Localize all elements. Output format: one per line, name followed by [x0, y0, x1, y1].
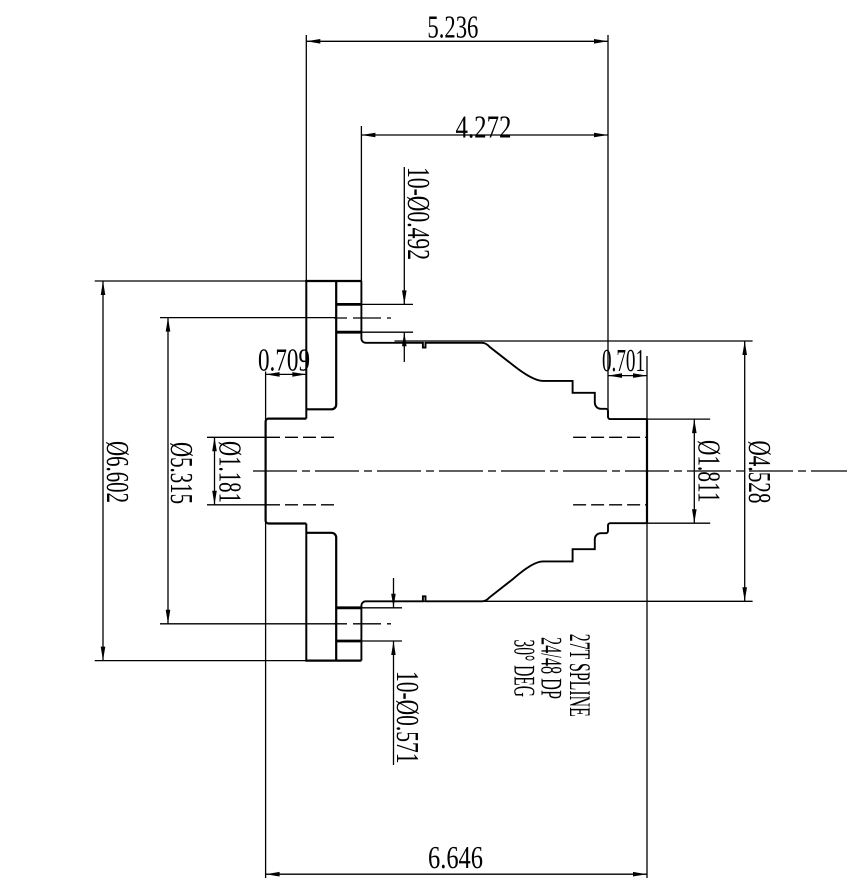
arrows dia 1.811 [692, 419, 697, 433]
arrows 0.701 [608, 373, 622, 378]
dimension line 0.701 [608, 375, 647, 377]
centerline (part axis) [253, 470, 847, 472]
arrows dia 6.602 [101, 281, 106, 295]
svg-text:10-Ø0.571: 10-Ø0.571 [390, 671, 426, 764]
dia 1.811 lower extension line [610, 522, 711, 524]
dimension line dia 6.602 [102, 281, 104, 661]
4.272 left extension vertical x361.4 [360, 126, 362, 281]
dimension line 5.236 [306, 40, 608, 42]
dia 5.315 upper extension line [160, 317, 336, 319]
dia 4.528 upper extension line [395, 340, 753, 342]
hidden bore line lower right [573, 504, 647, 506]
dimension line dia 1.811 [693, 419, 695, 523]
upper body profile: hub face, web surface, notch, ogee and steps [361, 281, 647, 419]
svg-text:6.646: 6.646 [428, 839, 483, 875]
dimension line 6.646 [266, 873, 647, 875]
left end face extension vertical [265, 372, 267, 879]
leader 10-dia0.571 [393, 578, 395, 608]
dimension line dia 5.315 [167, 318, 169, 624]
lower body profile: hub face, web surface, notch, ogee and steps [361, 523, 647, 660]
svg-text:Ø1.181: Ø1.181 [213, 441, 249, 503]
flange bottom edge with dia 6.602 extension [95, 660, 307, 662]
arrows dia 1.181 [212, 437, 217, 451]
arrows dia 5.315 [166, 318, 171, 332]
dia 1.811 upper extension line [610, 418, 711, 420]
dia 4.528 lower extension line [364, 600, 753, 602]
svg-text:Ø5.315: Ø5.315 [164, 442, 200, 504]
right end face extension vertical x647 [646, 356, 648, 878]
dimension line 4.272 [361, 134, 608, 136]
svg-text:Ø4.528: Ø4.528 [742, 441, 778, 504]
hidden bore line upper left [267, 436, 336, 438]
flange left face upper [305, 35, 307, 281]
hidden bore line upper right [573, 436, 647, 438]
svg-text:0.701: 0.701 [602, 342, 645, 378]
bottom bolt hole lower edge [336, 640, 361, 643]
dia 1.181 upper extension line [207, 436, 267, 438]
arrows 4.272 [361, 133, 375, 138]
arrows 6.646 [266, 872, 280, 877]
flange left face lower [305, 524, 307, 661]
hidden bore line lower left [267, 504, 336, 506]
svg-text:30° DEG: 30° DEG [508, 640, 541, 698]
dimension line 0.709 [266, 373, 307, 375]
arrows dia 4.528 [742, 341, 747, 355]
bottom bolt hole upper edge [336, 606, 361, 609]
top bolt hole upper edge [336, 303, 361, 306]
svg-text:0.709: 0.709 [258, 342, 310, 378]
svg-text:Ø6.602: Ø6.602 [100, 441, 136, 503]
leader 10-dia0.492 [403, 167, 405, 304]
dia 1.181 lower extension line [207, 504, 267, 506]
flange right face upper with recess ledge [306, 281, 336, 409]
right end face [646, 419, 648, 523]
right step extension vertical x608 [607, 35, 609, 417]
top bolt hole centerline [334, 317, 391, 319]
arrows 0.709 [266, 372, 280, 377]
left pilot cylinder silhouette [266, 419, 307, 524]
flange right face lower with recess ledge [306, 533, 336, 661]
dimension line dia 4.528 [744, 341, 746, 601]
svg-text:5.236: 5.236 [427, 9, 478, 45]
svg-text:10-Ø0.492: 10-Ø0.492 [401, 167, 437, 260]
top bolt hole lower edge [336, 331, 361, 334]
svg-text:Ø1.811: Ø1.811 [691, 440, 727, 503]
arrows 10-dia0.571 [391, 594, 396, 608]
bottom bolt hole centerline [334, 623, 391, 625]
arrows 5.236 [306, 39, 320, 44]
dia 5.315 lower extension line [160, 623, 336, 625]
svg-text:4.272: 4.272 [456, 109, 512, 145]
dimension line dia 1.181 [214, 437, 216, 505]
flange top edge with dia 6.602 extension [95, 280, 307, 282]
arrows 10-dia0.492 [402, 290, 407, 304]
